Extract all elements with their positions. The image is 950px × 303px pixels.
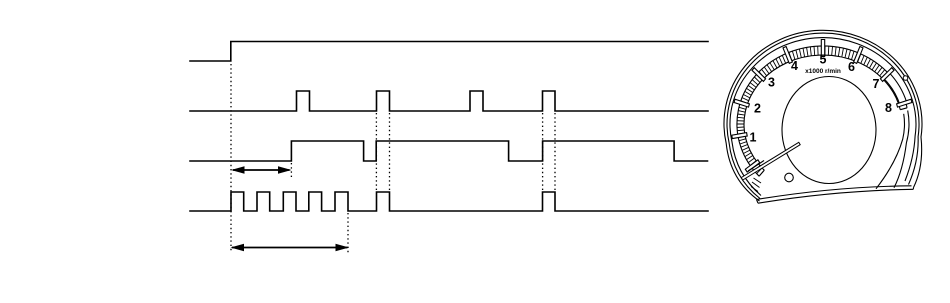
gauge dial inner circle xyxy=(782,77,876,184)
gauge scale band outer arc xyxy=(737,46,907,176)
svg-text:7: 7 xyxy=(873,77,880,91)
svg-text:1: 1 xyxy=(750,130,757,144)
gauge zero tick crossing needle xyxy=(748,161,764,172)
dotted guide line x=348 xyxy=(347,213,349,253)
svg-text:8: 8 xyxy=(885,101,892,115)
dotted guide line x=231 xyxy=(230,64,232,252)
dotted guide line x=389.5 xyxy=(389,113,391,191)
svg-text:2: 2 xyxy=(754,101,761,115)
wire waveform row1 ignition signal xyxy=(190,42,708,62)
gauge indicator lamp circle xyxy=(785,173,794,182)
gauge outer bezel arc 1 xyxy=(724,30,922,201)
gauge right inner arc A xyxy=(894,111,909,188)
wire waveform row3 gate signal xyxy=(190,141,708,161)
gauge scale band inner arc xyxy=(744,55,900,170)
gauge needle xyxy=(741,142,800,180)
gauge outer bezel arc 3 xyxy=(730,38,916,196)
dotted guide line x=542.5 xyxy=(542,113,544,191)
gauge major tick 5 xyxy=(821,40,824,57)
dotted guide line x=376.5 xyxy=(375,113,377,191)
gauge bottom rim lower line xyxy=(758,189,913,203)
gauge bottom rim left edge xyxy=(757,200,759,204)
gauge major tick 4 xyxy=(783,47,792,64)
gauge major tick 6 xyxy=(854,47,863,64)
gauge major tick 1 xyxy=(732,133,747,139)
gauge stud upper right xyxy=(903,76,908,81)
svg-text:4: 4 xyxy=(791,59,798,73)
dimension arrow delay (row3) xyxy=(231,166,292,174)
gauge major tick 3 xyxy=(752,68,766,82)
gauge outer bezel arc 2 xyxy=(727,33,919,198)
gauge bottom rim upper line xyxy=(757,186,912,200)
gauge major tick 7 xyxy=(880,68,894,82)
dimension arrow burst duration (row4) xyxy=(231,244,350,252)
svg-text:x1000 r/min: x1000 r/min xyxy=(805,68,841,75)
gauge right inner arc B xyxy=(876,114,904,189)
tachometer gauge xyxy=(724,30,922,203)
gauge minor ticks xyxy=(737,46,887,176)
gauge major tick 2 xyxy=(734,99,749,107)
dotted guide line x=291.5 xyxy=(290,163,292,177)
svg-text:3: 3 xyxy=(768,75,775,89)
gauge major tick 8 xyxy=(897,99,912,107)
gauge bottom rim right edge xyxy=(912,188,914,190)
dotted guide line x=555 xyxy=(554,113,556,191)
wire waveform row4 clock burst xyxy=(190,192,708,211)
gauge major tick 0 xyxy=(745,160,759,172)
gauge red zone channel 7-8 xyxy=(884,73,907,105)
svg-text:6: 6 xyxy=(848,60,855,74)
gauge lower-left horn hatching xyxy=(751,178,761,192)
wire waveform row2 pulse train xyxy=(190,91,708,111)
svg-text:5: 5 xyxy=(820,52,827,66)
gauge scale band end caps xyxy=(759,108,907,176)
